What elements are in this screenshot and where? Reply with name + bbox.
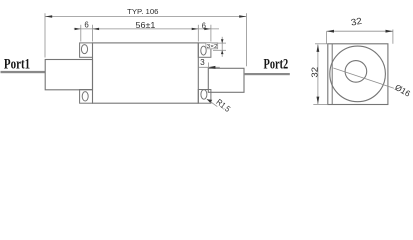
right boot — [208, 68, 244, 92]
tab top-left — [80, 43, 93, 57]
svg-text:6: 6 — [84, 19, 89, 29]
svg-text:Port1: Port1 — [4, 56, 30, 72]
dim 6 left arrow outside — [75, 28, 81, 30]
end view dim 32 left extension bottom — [313, 103, 328, 105]
end view dim 32 left line — [317, 45, 319, 105]
dim slot arrow down — [221, 39, 224, 43]
end view dim 32 top line — [327, 30, 393, 32]
end view inner left edge line — [331, 44, 333, 105]
end view square — [328, 44, 388, 105]
end view dim 32 left extension top — [315, 43, 328, 45]
svg-text:6: 6 — [202, 21, 206, 31]
dim 56 extension line right — [197, 25, 199, 42]
end view outer circle — [330, 46, 386, 102]
svg-text:TYP. 106: TYP. 106 — [127, 7, 158, 16]
end view inner circle — [345, 61, 367, 83]
tab bottom-left — [80, 90, 93, 104]
svg-text:Port2: Port2 — [264, 57, 289, 73]
dim 3 arrow — [208, 66, 215, 69]
dim 6 left extension line a — [80, 25, 82, 42]
end view dim 32 top arrow right — [386, 30, 393, 33]
tab top-right — [198, 43, 211, 57]
dim TYP. 106 arrow left — [45, 15, 52, 18]
dim 56 arrow left — [93, 28, 100, 30]
dim 6 left extension line b — [92, 25, 94, 42]
dim 56 arrow right — [192, 28, 199, 30]
left boot — [45, 60, 92, 90]
slot bottom-left — [82, 92, 88, 101]
slot top-right — [201, 46, 206, 55]
end view dim 32 top extension right — [392, 30, 394, 44]
leader R1.5 arrowhead — [207, 99, 212, 103]
dim slot vertical line — [221, 37, 223, 57]
leader R1.5 — [207, 99, 217, 106]
dim TYP. 106 extension line left — [44, 13, 46, 57]
slot top-left — [81, 45, 87, 54]
end view dim 32 left arrow bottom — [317, 97, 320, 104]
tab bottom-right — [198, 90, 211, 104]
dim row2 line — [74, 28, 219, 30]
body — [93, 43, 199, 103]
end view dim 32 left arrow top — [317, 45, 320, 52]
svg-text:32: 32 — [350, 16, 363, 28]
svg-text:3: 3 — [200, 58, 205, 67]
end view dim 32 top arrow left — [327, 30, 334, 33]
dim slot extension tick bottom — [213, 49, 226, 51]
svg-text:3×2: 3×2 — [207, 44, 218, 50]
dim TYP. 106 arrow right — [239, 15, 246, 18]
dim 6 right extension line — [210, 25, 212, 42]
dim TYP. 106 line — [45, 16, 246, 18]
dim TYP. 106 extension line right — [245, 13, 247, 66]
dim 6 right arrow — [204, 28, 211, 30]
dim 3 line — [199, 66, 220, 68]
wire fiber Port2 — [244, 73, 290, 75]
end view dim 32 top extension left — [326, 31, 328, 44]
slot bottom-right — [201, 90, 207, 100]
dim 3 extension line — [207, 63, 209, 68]
wire fiber Port1 — [1, 71, 46, 73]
leader Ø16 — [333, 68, 394, 88]
dim slot arrow up — [221, 50, 224, 54]
dim slot extension tick top — [212, 42, 227, 44]
svg-text:32: 32 — [310, 67, 320, 78]
svg-text:56±1: 56±1 — [136, 20, 156, 30]
dim slot box label — [206, 43, 218, 49]
